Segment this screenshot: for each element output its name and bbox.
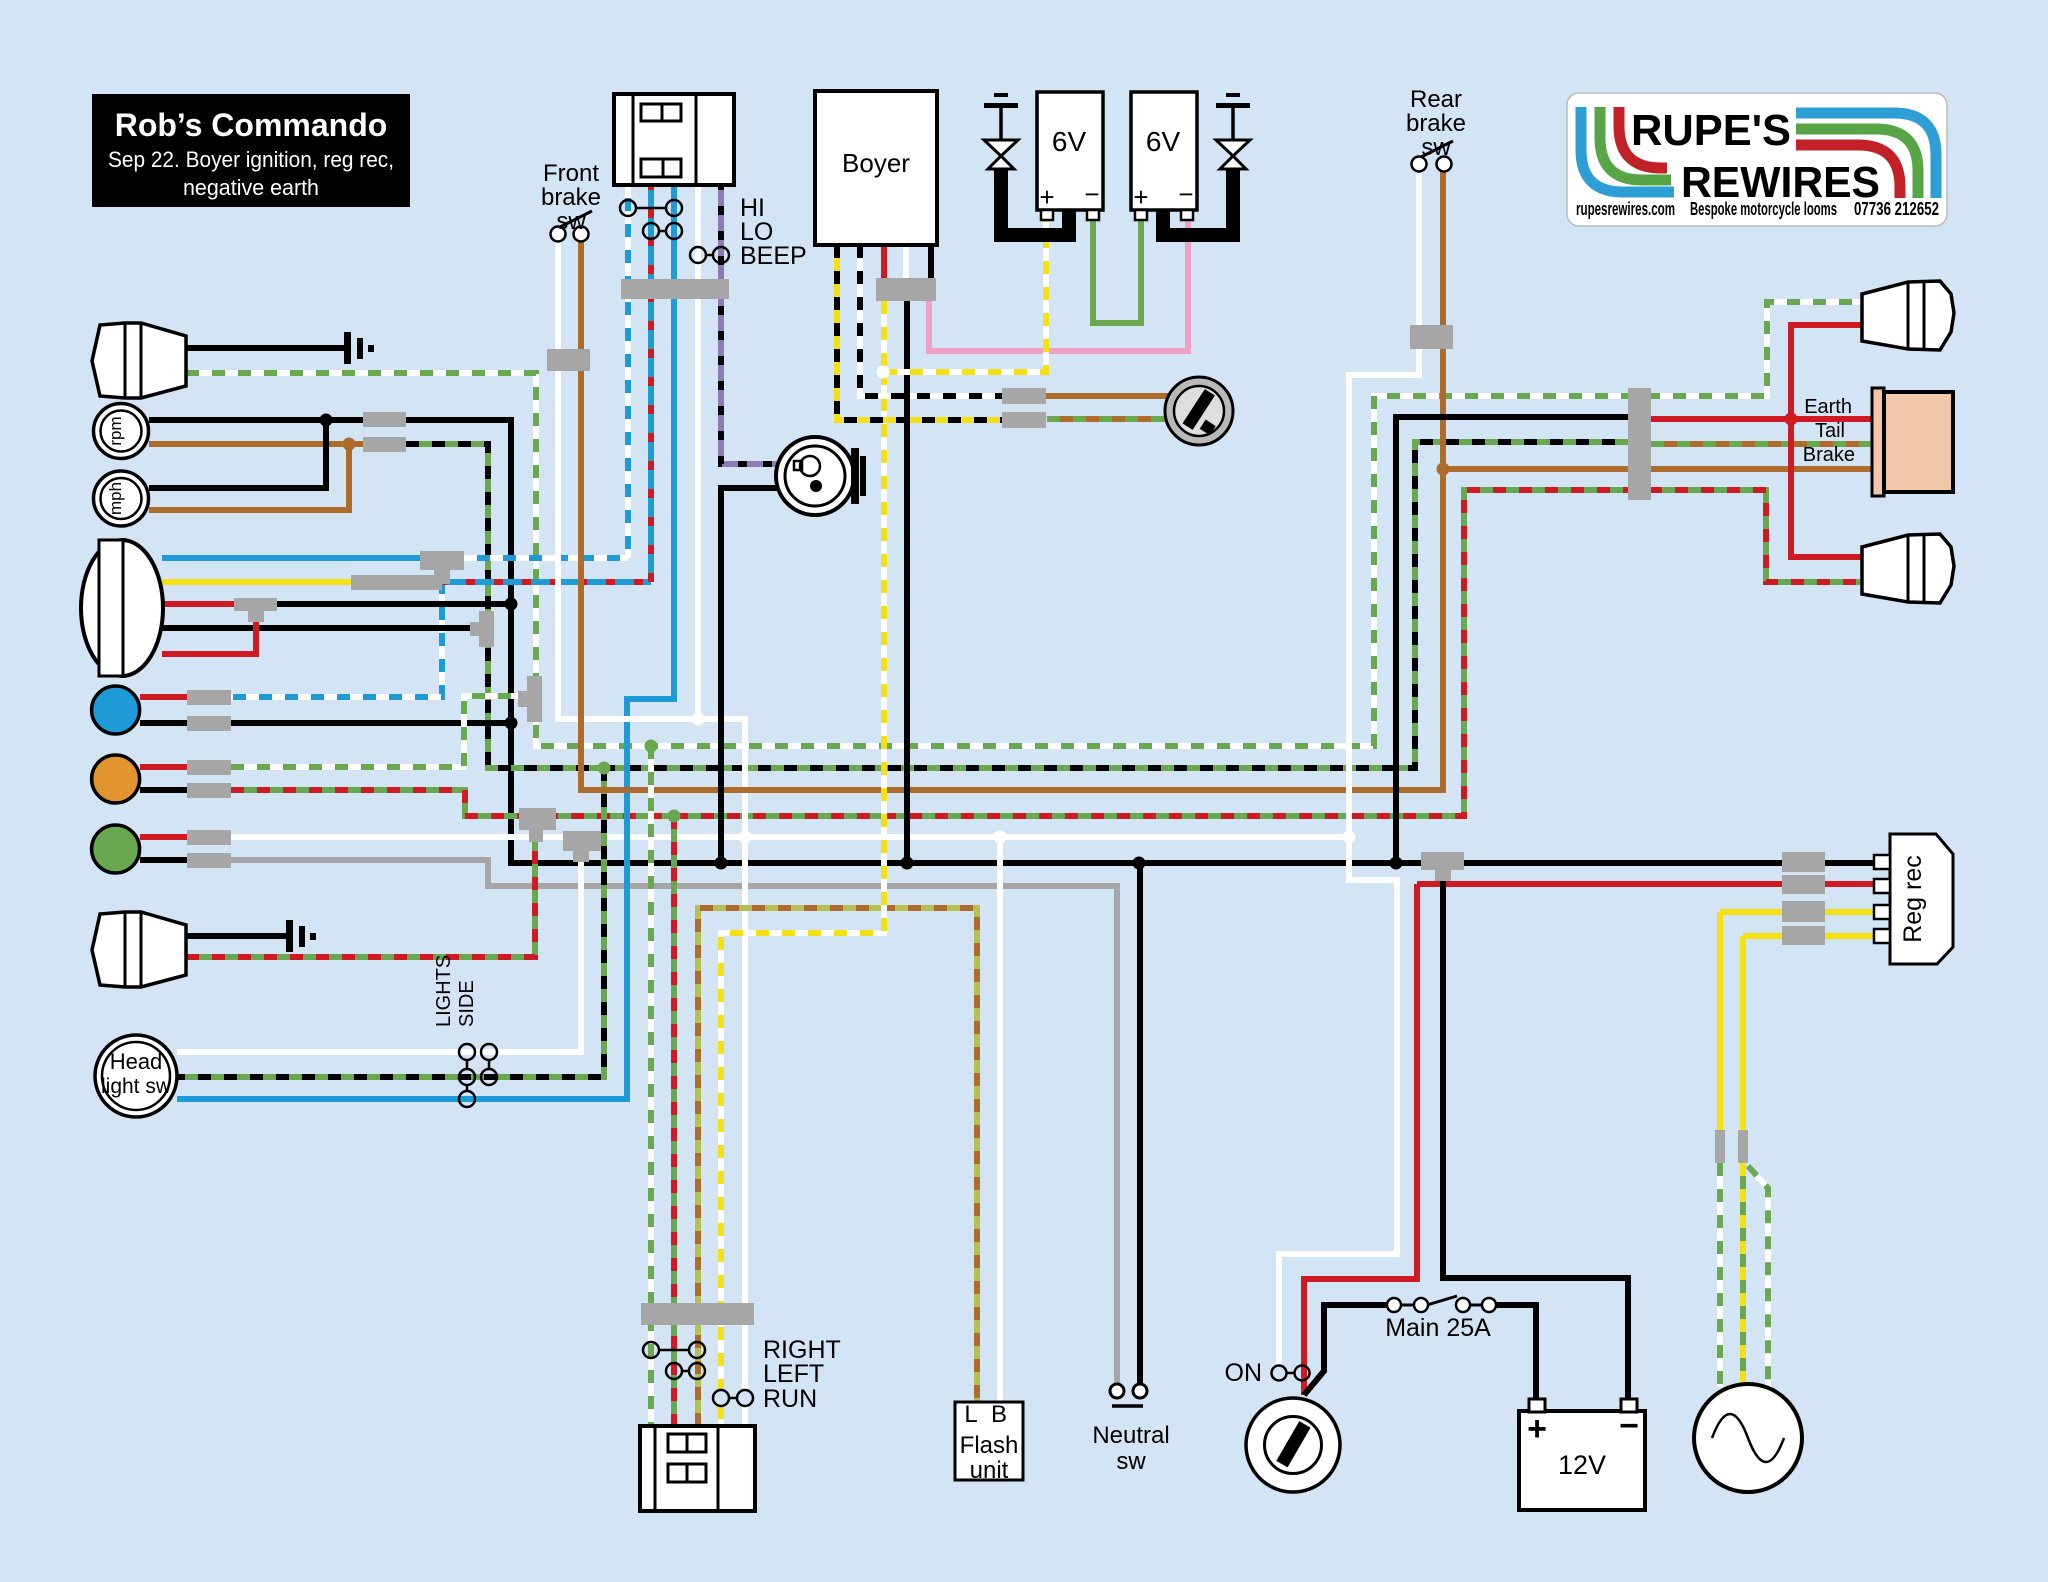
wire boyer pink — [929, 220, 1188, 351]
wire battery neg black — [1443, 878, 1628, 1400]
key switch outer — [1246, 1398, 1340, 1492]
wire indicator R2 red — [1791, 419, 1862, 557]
wire run white tail — [742, 1406, 748, 1426]
connector rpm black — [363, 412, 406, 427]
svg-text:Earth: Earth — [1804, 396, 1852, 418]
wire plug2 lead — [1231, 107, 1235, 140]
svg-text:ON: ON — [1225, 1359, 1263, 1387]
node earth neutral — [1133, 857, 1146, 870]
neutral contact 1 — [1110, 1384, 1124, 1398]
gauge mph inner — [101, 478, 142, 519]
link on — [1287, 1372, 1294, 1375]
wire neutral lamp red — [140, 834, 187, 840]
svg-text:rupesrewires.com: rupesrewires.com — [1576, 199, 1675, 219]
wire boyer black/yellow — [837, 245, 1002, 420]
wire front brake white — [558, 241, 745, 1390]
diode plug 2 upper — [1216, 140, 1250, 156]
diode plug 1 upper — [984, 140, 1018, 156]
ground rear indicator left — [344, 332, 351, 364]
svg-text:LIGHTS: LIGHTS — [433, 955, 455, 1027]
contact side 2 — [481, 1069, 497, 1085]
connector boyer bar — [876, 278, 936, 301]
wire plug1 lead — [999, 107, 1003, 140]
diode plug 2 lower — [1220, 156, 1246, 169]
wire rpm black — [149, 417, 363, 423]
node white bus a — [739, 831, 752, 844]
rear indicator R1 line 1 — [1907, 282, 1910, 349]
contact BEEP a — [690, 247, 706, 263]
node earth horn — [715, 857, 728, 870]
horn small circle — [800, 456, 820, 476]
svg-text:Neutral: Neutral — [1092, 1422, 1169, 1449]
battery box — [1519, 1411, 1645, 1510]
link side — [488, 1060, 491, 1069]
svg-text:sw: sw — [556, 208, 586, 235]
wire boyer red — [881, 245, 887, 278]
wire horn black earth — [721, 488, 777, 863]
wire mph black — [149, 420, 326, 488]
contact LO b — [666, 223, 682, 239]
rear brake contact 1 — [1412, 157, 1427, 172]
svg-text:Sep 22. Boyer ignition, reg re: Sep 22. Boyer ignition, reg rec, — [108, 147, 394, 172]
wire blue lamp black to earth — [231, 720, 511, 726]
wire rear brake white — [1279, 171, 1419, 1366]
wire regrec yellow 2 drop — [1740, 936, 1746, 1131]
front brake contact 1 — [551, 227, 566, 242]
diode plug 1 lower — [988, 156, 1014, 169]
gauge rpm inner — [101, 411, 142, 452]
horn small tab — [794, 461, 802, 470]
connector green/red tee — [519, 808, 556, 842]
wire indicator lamp green/white — [231, 696, 520, 767]
wire headlamp red earth 2 — [162, 616, 256, 654]
horn bracket — [851, 448, 859, 504]
node white bus c — [1343, 831, 1356, 844]
node brown brake — [1437, 463, 1450, 476]
svg-text:12V: 12V — [1558, 1450, 1606, 1480]
link right — [659, 1349, 689, 1352]
contact left a — [666, 1363, 682, 1379]
svg-text:sw: sw — [1421, 134, 1451, 161]
front indicator line 1 — [124, 912, 127, 987]
node earth tail — [1785, 413, 1798, 426]
wire indicator lamp black — [140, 787, 187, 793]
svg-text:Main 25A: Main 25A — [1385, 1314, 1491, 1342]
contact left b — [689, 1363, 705, 1379]
connector white bus tee — [563, 831, 601, 862]
wire ignition brown — [1046, 393, 1170, 399]
svg-text:6V: 6V — [1146, 126, 1181, 157]
wire tail brown/green — [1651, 441, 1884, 447]
battery terminals — [1529, 1399, 1545, 1412]
rear indicator R2 line 1 — [1907, 535, 1910, 602]
svg-text:SIDE: SIDE — [456, 980, 478, 1027]
handlebar connector block — [614, 94, 734, 185]
wire gauges black to ground bus — [406, 420, 1874, 863]
contact BEEP b — [713, 247, 729, 263]
wire rear black — [1396, 417, 1628, 863]
svg-text:Brake: Brake — [1803, 444, 1855, 466]
wire brake lamp brown — [1443, 466, 1884, 472]
wire regrec yellow 1 — [1720, 909, 1874, 915]
svg-text:sw: sw — [1116, 1448, 1146, 1475]
connector handlebar bar — [621, 279, 729, 299]
wire headlight switch white — [177, 851, 581, 1052]
connector ignition 2 — [1002, 412, 1046, 428]
neutral contact 2 — [1133, 1384, 1147, 1398]
title block — [92, 94, 410, 207]
wire alternator green/yellow — [1740, 1163, 1746, 1387]
wire ignition to fuse black — [1304, 1305, 1387, 1395]
link left — [682, 1370, 689, 1373]
contact LO a — [643, 223, 659, 239]
handlebar block pin box top — [641, 104, 681, 121]
svg-text:−: − — [1084, 179, 1099, 209]
handlebar block pin box bottom — [641, 159, 681, 177]
wire horn white — [695, 185, 701, 719]
wire coil link green — [1093, 220, 1141, 323]
link lights a — [466, 1060, 469, 1069]
coil 1 terminals — [1041, 210, 1053, 220]
connector pilot lamp black — [187, 716, 231, 731]
svg-text:Flash: Flash — [960, 1432, 1019, 1459]
connector alternator sleeve 2 — [1738, 1130, 1748, 1163]
connector indicator lamp red — [187, 760, 231, 775]
wire run yellow/white tail — [718, 1406, 724, 1426]
wire flash unit white — [997, 837, 1003, 1402]
wire headlamp earth black — [277, 601, 511, 607]
wire plug1 HT thick — [1001, 166, 1069, 235]
rear indicator left line 1 — [124, 323, 127, 398]
rear indicator left — [92, 323, 186, 398]
svg-text:6V: 6V — [1052, 126, 1087, 157]
front brake lever — [560, 211, 592, 227]
node green/white junction — [645, 740, 658, 753]
fuse contact 1 — [1387, 1298, 1401, 1312]
contact lights 3 — [459, 1091, 475, 1107]
link HI — [636, 207, 666, 210]
lamp indicator orange — [92, 755, 140, 803]
connector regrec yellow2 — [1782, 926, 1825, 945]
svg-text:RUPE'S: RUPE'S — [1631, 106, 1791, 155]
gauge rpm outer — [94, 404, 149, 459]
wire right turn green/red drop — [671, 816, 677, 1426]
lamp neutral green — [92, 825, 140, 873]
connector rear loom tall — [1628, 388, 1651, 500]
cluster 2 block — [640, 1426, 755, 1511]
headlight switch inner — [102, 1042, 170, 1110]
contact on a — [1272, 1366, 1287, 1381]
wire ignition red — [1304, 884, 1417, 1395]
rear brake lever — [1421, 141, 1453, 157]
svg-text:Boyer: Boyer — [842, 148, 910, 178]
contact on b — [1295, 1366, 1310, 1381]
wire earth red — [1651, 416, 1874, 422]
svg-text:Bespoke motorcycle looms: Bespoke motorcycle looms — [1690, 199, 1837, 219]
rear indicator R2 — [1862, 534, 1954, 603]
wire coil feed yellow/white — [884, 220, 1046, 372]
tail lamp bar — [1872, 388, 1884, 496]
svg-text:mph: mph — [106, 482, 125, 515]
node green/black junction — [598, 762, 611, 775]
contact HI b — [666, 200, 682, 216]
ground plug 2 — [1216, 103, 1250, 108]
connector rpm brown — [363, 437, 406, 452]
wire run yellow/white 2 — [721, 372, 884, 1390]
wire regrec yellow 2 — [1743, 933, 1874, 939]
svg-text:+: + — [1133, 182, 1148, 212]
fuse contact 3 — [1456, 1298, 1470, 1312]
wire headlamp black pilot — [162, 625, 470, 631]
horn outer — [776, 437, 854, 515]
node headlamp earth — [505, 598, 518, 611]
svg-text:−: − — [1619, 1407, 1639, 1445]
link BEEP — [706, 254, 713, 257]
svg-text:RUN: RUN — [763, 1385, 817, 1413]
coil 2 box — [1131, 92, 1197, 210]
wire headlamp blue main beam — [162, 555, 420, 561]
connector rear brake — [1410, 325, 1453, 349]
svg-text:+: + — [1527, 1410, 1547, 1448]
contact lights 1 — [459, 1044, 475, 1060]
rear indicator left line 2 — [140, 324, 143, 397]
connector headlamp earth tee — [234, 598, 277, 622]
svg-text:LEFT: LEFT — [763, 1360, 824, 1388]
wire green/red bus — [519, 490, 1862, 816]
svg-text:BEEP: BEEP — [740, 242, 807, 270]
svg-text:Tail: Tail — [1815, 420, 1845, 442]
connector regrec yellow1 — [1782, 901, 1825, 922]
cluster2 divider 1 — [654, 1426, 657, 1511]
front indicator line 2 — [140, 913, 143, 986]
horn inner — [785, 446, 845, 506]
svg-text:B: B — [991, 1401, 1007, 1428]
wire boyer black/white — [860, 245, 1002, 396]
wire fuse link black b — [1470, 1304, 1482, 1307]
neutral switch bar — [1112, 1404, 1143, 1408]
link lights b — [466, 1085, 469, 1091]
connector front brake — [547, 349, 590, 371]
connector regrec black — [1782, 852, 1825, 872]
svg-text:unit: unit — [970, 1457, 1009, 1484]
svg-text:−: − — [1178, 179, 1193, 209]
connector main beam tee — [420, 551, 464, 584]
connector alternator sleeve 1 — [1715, 1130, 1725, 1163]
wire ignition brown/green — [1047, 416, 1170, 422]
svg-text:brake: brake — [541, 184, 601, 211]
headlamp ellipse — [81, 540, 163, 676]
wire plug2 HT thick — [1163, 166, 1233, 235]
wire headlight switch blue — [177, 185, 674, 1099]
rear brake contact 2 — [1437, 157, 1452, 172]
wire run yellow/white — [881, 301, 887, 372]
wire horn purple/black — [721, 185, 777, 464]
cluster2 pin box top — [668, 1434, 706, 1452]
handlebar block divider 1 — [632, 94, 635, 185]
connector indicator lamp black — [187, 783, 231, 798]
tail lamp box — [1884, 392, 1953, 492]
node gauges black — [320, 414, 333, 427]
wire alternator green/white 2 — [1748, 1166, 1768, 1387]
fuse contact 2 — [1414, 1298, 1428, 1312]
wire boyer white — [903, 245, 909, 278]
connector pilot lamp red — [187, 690, 231, 705]
node green/red junction — [668, 810, 681, 823]
cluster2 pin box bottom — [668, 1464, 706, 1482]
wire left turn green/white drop — [648, 746, 654, 1426]
wire neutral lamp black — [140, 857, 187, 863]
fuse contact 4 — [1482, 1298, 1496, 1312]
ignition switch key — [1183, 389, 1215, 430]
svg-text:07736 212652: 07736 212652 — [1854, 199, 1939, 219]
wire gray bus — [231, 860, 1117, 1383]
connector green/white tee — [518, 676, 542, 722]
rear indicator R2 line 2 — [1923, 534, 1926, 603]
node earth rear — [1390, 857, 1403, 870]
wire front indicator black earth — [186, 933, 286, 939]
svg-text:Head: Head — [110, 1049, 163, 1074]
node gauges brown — [343, 438, 356, 451]
regrec box — [1890, 834, 1953, 964]
rear indicator R1 line 2 — [1923, 281, 1926, 350]
coil 2 terminals — [1135, 210, 1147, 220]
regrec pins — [1874, 855, 1890, 869]
node white horn junction — [692, 713, 705, 726]
wire headlamp red earth — [162, 601, 234, 607]
wire mph brown — [149, 444, 349, 510]
wire dip beam blue/red — [442, 579, 651, 585]
cluster2 divider 2 — [717, 1426, 720, 1511]
wire fuse blade — [1427, 1296, 1457, 1305]
rear indicator R1 — [1862, 281, 1954, 350]
wire headlight switch green/black — [177, 768, 604, 1077]
wire indicator R1 red — [1791, 325, 1862, 419]
contact HI a — [620, 200, 636, 216]
coil 1 box — [1037, 92, 1103, 210]
wire boyer black earth drop — [904, 301, 910, 863]
node white bus b — [994, 831, 1007, 844]
wire boyer black — [928, 245, 934, 278]
contact lights 2 — [459, 1069, 475, 1085]
contact right a — [643, 1342, 659, 1358]
svg-text:Reg rec: Reg rec — [1899, 855, 1927, 943]
wire front brake brown — [581, 171, 1443, 790]
ground front indicator — [286, 920, 293, 952]
horn dot — [810, 480, 822, 492]
wire turn feed olive/brown — [698, 908, 977, 1426]
wire neutral switch black — [1137, 863, 1143, 1383]
wire high beam drop blue/white — [231, 568, 442, 697]
wire high beam lamp red — [140, 694, 187, 700]
alternator — [1694, 1384, 1802, 1492]
contact side 1 — [481, 1044, 497, 1060]
connector regrec red — [1782, 875, 1825, 894]
ground plug 1 — [984, 103, 1018, 108]
wire white bus — [231, 834, 1349, 840]
handlebar block divider 2 — [695, 94, 698, 185]
key switch inner — [1265, 1417, 1322, 1474]
node pilot lamp earth — [505, 717, 518, 730]
lamp high beam blue — [92, 686, 140, 734]
node earth boyer — [901, 857, 914, 870]
wire rpm brown — [149, 441, 363, 447]
wire battery feed red — [1417, 881, 1874, 887]
wire front indicator green/red — [186, 832, 535, 957]
svg-text:+: + — [1039, 182, 1054, 212]
wire main beam blue/white — [464, 555, 628, 561]
svg-text:light sw: light sw — [101, 1075, 172, 1098]
front brake contact 2 — [574, 227, 589, 242]
node yellow/white junction — [877, 366, 890, 379]
wire headlamp yellow dip — [162, 579, 351, 585]
link run — [729, 1397, 737, 1400]
connector headlamp yellow — [351, 575, 442, 590]
headlight switch outer — [95, 1035, 177, 1117]
wire gauges green/black tail bus — [406, 442, 1628, 768]
wire LO blue/red drop — [648, 185, 654, 582]
headlamp lens rect — [99, 540, 123, 676]
connector pilot tee — [470, 611, 494, 647]
connector neutral lamp black — [187, 853, 231, 868]
wire alternator green/white 1 — [1717, 1163, 1723, 1387]
wire HI blue/white drop — [625, 185, 631, 558]
svg-text:Rob’s Commando: Rob’s Commando — [115, 107, 388, 143]
wire fuse link black a — [1401, 1304, 1414, 1307]
wire rear indicator L green/white — [186, 302, 1862, 746]
front indicator left — [92, 912, 186, 987]
svg-text:Front: Front — [543, 160, 599, 187]
wire high beam lamp black — [140, 720, 187, 726]
gauge mph outer — [94, 471, 149, 526]
connector cluster2 bar — [641, 1303, 754, 1325]
svg-text:Rear: Rear — [1410, 86, 1462, 113]
wire regrec yellow 1 drop — [1717, 912, 1723, 1131]
svg-text:L: L — [964, 1401, 977, 1428]
svg-text:rpm: rpm — [106, 416, 125, 445]
svg-text:brake: brake — [1406, 110, 1466, 137]
ignition switch face — [1174, 386, 1224, 436]
flash unit box — [955, 1402, 1023, 1480]
wire indicator lamp green/red — [231, 790, 519, 816]
link LO — [659, 230, 666, 233]
wire indicator lamp red — [140, 764, 187, 770]
logo rupes rewires — [1567, 93, 1947, 226]
contact right b — [689, 1342, 705, 1358]
boyer box — [815, 91, 937, 245]
connector black bus tee — [1421, 852, 1464, 881]
ignition switch ring — [1165, 377, 1233, 445]
contact run b — [737, 1390, 753, 1406]
alternator sine — [1712, 1414, 1784, 1462]
wire fuse to battery black — [1496, 1305, 1536, 1400]
wire rear indicator L earth black — [186, 345, 344, 351]
connector neutral lamp red — [187, 830, 231, 845]
svg-text:negative earth: negative earth — [183, 175, 319, 200]
connector ignition 1 — [1002, 388, 1046, 404]
key switch key — [1276, 1421, 1310, 1467]
contact run a — [713, 1390, 729, 1406]
